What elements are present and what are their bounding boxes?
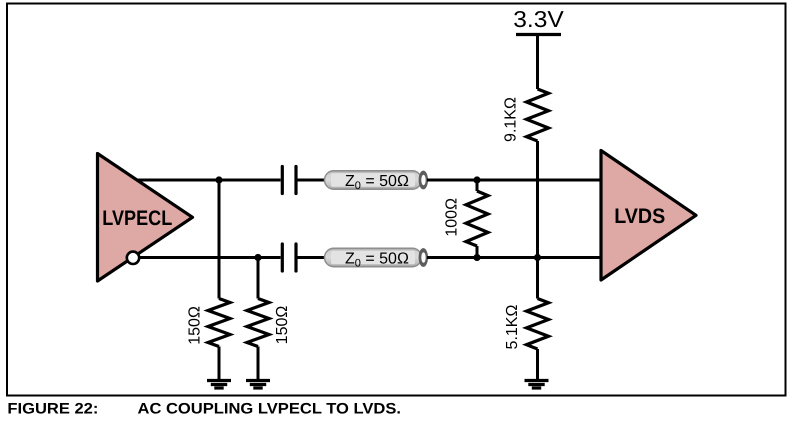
svg-text:5.1KΩ: 5.1KΩ [504, 305, 521, 350]
svg-text:Z0 = 50Ω: Z0 = 50Ω [345, 173, 409, 192]
svg-text:LVPECL: LVPECL [102, 207, 172, 230]
wire: top line down to R1 (crosses bottom line) [218, 180, 221, 299]
buffer U2 (LVDS receiver) triangle symbol [601, 151, 696, 281]
svg-text:150Ω: 150Ω [187, 306, 204, 345]
node: top line tap to R1 [215, 176, 222, 183]
svg-text:Z0 = 50Ω: Z0 = 50Ω [345, 250, 409, 269]
transmission line T1 cylinder (top) [325, 171, 428, 190]
node: bias junction on bottom line [534, 254, 541, 261]
wire: R3 down to bottom line node [476, 246, 479, 258]
svg-text:150Ω: 150Ω [274, 306, 291, 345]
resistor R5 5.1K ohm (pull-down) [527, 299, 549, 350]
wire: U1 noninverting output to C1 (top line) [136, 179, 281, 182]
wire: C2 to transmission line T2 [297, 256, 326, 259]
buffer U1 (LVPECL driver) triangle symbol [98, 154, 193, 282]
ground symbol under R5 [525, 381, 549, 389]
wire: R1 to ground [218, 347, 221, 381]
svg-text:3.3V: 3.3V [513, 6, 564, 32]
resistor R1 150 ohm [208, 299, 230, 347]
svg-text:100Ω: 100Ω [444, 198, 461, 237]
wire: C1 to transmission line T1 [297, 179, 326, 182]
capacitor C2 (bottom AC coupling cap) [282, 244, 296, 271]
node: bottom line junction with R3 [473, 254, 480, 261]
svg-text:9.1KΩ: 9.1KΩ [503, 97, 520, 142]
wire: R4 down across top line to bottom line node [536, 141, 539, 299]
inversion bubble on U1 inverting output [127, 252, 139, 264]
wire: R5 to ground [536, 349, 539, 381]
resistor R4 9.1K ohm (pull-up) [527, 89, 549, 141]
node: bottom line tap to R2 [254, 254, 261, 261]
wire: 3.3V rail down to R4 [536, 35, 539, 90]
transmission line T2 cylinder (bottom) [325, 248, 428, 267]
wire: T1 to LVDS input (top line) [427, 179, 601, 182]
wire: U1 inverting output to C2 (bottom line) [140, 256, 281, 259]
svg-text:LVDS: LVDS [614, 205, 665, 228]
wire: T2 to LVDS input (bottom line) [427, 256, 601, 259]
node: top line junction with R3 [473, 176, 480, 183]
svg-text:FIGURE 22:: FIGURE 22: [7, 401, 98, 418]
wire: top line node down to R3 [476, 180, 479, 191]
svg-text:AC COUPLING LVPECL TO LVDS.: AC COUPLING LVPECL TO LVDS. [138, 401, 402, 418]
wire: R2 to ground [257, 347, 260, 381]
ground symbol under R1 [207, 381, 231, 389]
wire: bottom line down to R2 [257, 258, 260, 299]
ground symbol under R2 [246, 381, 270, 389]
capacitor C1 (top AC coupling cap) [282, 167, 296, 194]
supply rail bar 3.3V [516, 33, 561, 36]
resistor R3 100 ohm (differential termination) [466, 191, 488, 246]
resistor R2 150 ohm [247, 299, 269, 347]
